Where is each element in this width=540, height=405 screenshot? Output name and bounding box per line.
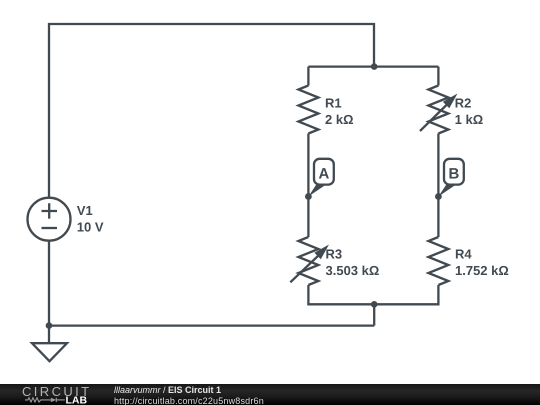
resistor R2 (variable) [420,86,483,134]
wire R1 top lead [307,67,309,86]
node A [305,159,334,200]
wire right column between R2 and R4 [437,134,439,238]
voltage source V1 [28,198,104,241]
CircuitLab logo [0,384,110,405]
wire bottom rail [49,324,374,326]
svg-text:LAB: LAB [66,395,88,405]
wire R3 bottom to center node [308,285,374,304]
ground [32,326,67,362]
node junction ground [46,322,53,329]
resistor R4 [428,237,508,285]
wire V1 bottom to bottom rail [48,241,50,326]
node junction top [371,63,378,70]
wire R4 bottom to center node [374,285,438,304]
wire top rail from V1 top to right column [49,24,374,198]
wire middle top rail [308,65,438,67]
wire left column between R1 and R3 [307,134,309,238]
node B [435,159,464,200]
wire center node down to bottom rail [373,304,375,325]
wire R2 top lead [437,67,439,86]
resistor R3 (variable) [290,237,378,285]
node junction bottom center [371,301,378,308]
resistor R1 [298,86,353,134]
footer bar [0,384,540,405]
